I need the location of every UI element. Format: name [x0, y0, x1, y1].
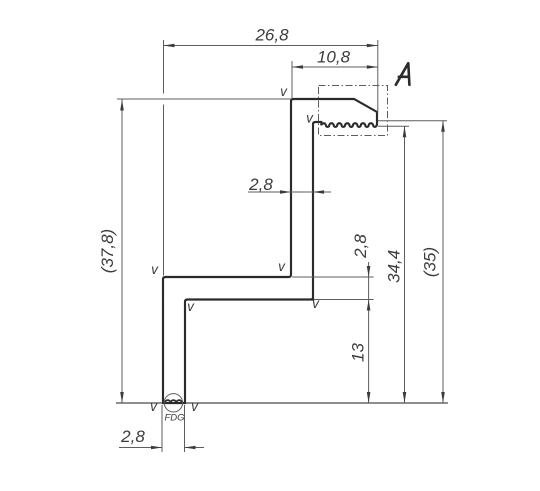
dimension 2,8 (bottom tip thickness) [119, 427, 204, 449]
extension line: bottom tip left edge for 2,8 dim [161, 405, 163, 452]
extension line: right edge for 26,8 / 10,8 [377, 40, 379, 113]
dimension 10,8 (flange width) [292, 48, 378, 69]
extension line: upper step surface to 2,8 dim [292, 276, 374, 278]
extension line: left edge for 10,8 [291, 61, 293, 98]
dimension (37,8) overall height, left side [98, 99, 124, 403]
extension line: bottom edge extended right to (35) dim [186, 402, 448, 404]
dimension 26,8 (top overall width) [164, 26, 378, 48]
extension line: bottom edge extended left to (37,8) dim [116, 402, 162, 404]
svg-text:FDG: FDG [164, 413, 184, 424]
profile bottom tip fine serration ridges (detail FDG) [165, 400, 182, 403]
svg-text:2,8: 2,8 [248, 175, 273, 194]
dimension 34,4 (height to serrated face) [385, 126, 407, 403]
extension line: left edge of 26,8 upper segment [163, 40, 165, 94]
extension line: flange lip level to (35) dim [378, 120, 447, 122]
svg-text:13: 13 [349, 343, 368, 362]
svg-text:(35): (35) [421, 247, 440, 277]
svg-text:2,8: 2,8 [351, 234, 370, 259]
extension line: top surface extended left to (37,8) dim [117, 98, 291, 100]
profile outline: Z-extrusion cross-section [163, 99, 377, 403]
svg-text:34,4: 34,4 [385, 250, 404, 283]
detail boundary A (dash-dot rectangle around serrated flange) [319, 86, 388, 136]
extension line: left edge of 26,8 lower segment to step corner [163, 105, 165, 276]
dimension 2,8 (step height) and 13 (lower leg height), shared dim line [349, 234, 371, 403]
detail circle FDG (bottom tip) [164, 394, 182, 412]
svg-text:10,8: 10,8 [317, 48, 351, 67]
profile bottom tip edge (straight) [162, 402, 186, 404]
extension line: lower step surface to 13 dim [314, 299, 374, 301]
extension line: bottom tip right edge for 2,8 dim [184, 405, 186, 452]
svg-text:26,8: 26,8 [254, 26, 289, 45]
dimension 2,8 (web thickness) [248, 175, 331, 194]
dimension (35) overall height to lip, right side [421, 121, 445, 403]
svg-text:2,8: 2,8 [120, 427, 145, 446]
detail label A [396, 63, 410, 85]
extension line: serration level to 34,4 dim [378, 125, 409, 127]
svg-text:(37,8): (37,8) [98, 229, 117, 273]
